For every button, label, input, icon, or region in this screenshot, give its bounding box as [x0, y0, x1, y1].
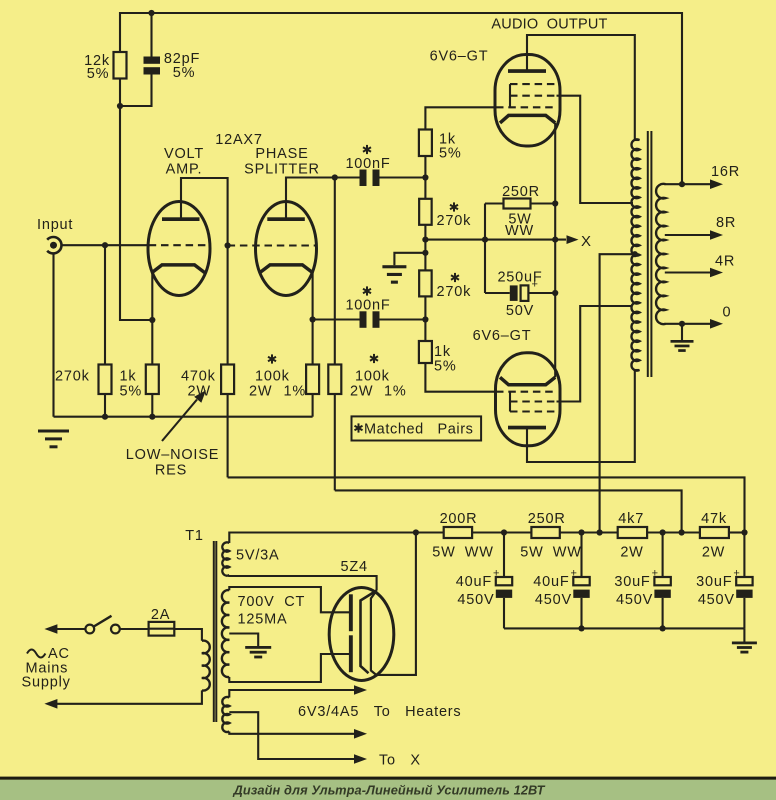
node junction dot center-tap feed: [597, 529, 603, 535]
label LOW-NOISE RES: [126, 447, 219, 479]
label AUDIO OUTPUT: [491, 17, 607, 33]
V1 anode plate bar: [162, 217, 200, 221]
node junction dot 270k/ground rail: [102, 414, 108, 420]
capacitor 30uF 450V first: [654, 533, 670, 629]
svg-text:2W: 2W: [249, 384, 272, 400]
arrow 4R: [710, 268, 723, 278]
ground symbol speaker common: [671, 340, 694, 352]
svg-text:100nF: 100nF: [345, 156, 390, 172]
svg-text:470k: 470k: [181, 369, 216, 385]
svg-text:Pairs: Pairs: [438, 422, 474, 438]
label 4R: [715, 254, 735, 270]
wire input to V1 grid: [62, 244, 149, 246]
wire heater tap to X: [229, 712, 355, 759]
wire splitter return rail (100k bottom): [335, 490, 682, 532]
resistor 250R 5W WW cathode: [485, 199, 555, 209]
svg-text:5V/3A: 5V/3A: [236, 548, 280, 564]
ground symbol main: [38, 430, 69, 449]
label 250R 5W WW dropper: [520, 511, 581, 561]
svg-text:40uF: 40uF: [533, 574, 569, 590]
node junction dot V2 cathode: [310, 316, 316, 322]
node junction dot cathode rail 250R: [552, 200, 558, 206]
wire V2 cathode lead: [312, 271, 314, 320]
tube rectifier 5Z4 envelope: [329, 588, 394, 681]
svg-text:47k: 47k: [701, 511, 727, 527]
wire HT center tap: [229, 634, 258, 647]
V3 anode plate bar: [508, 69, 546, 73]
label VOLT AMP.: [164, 146, 204, 178]
wire 250R/250uF left leg: [484, 204, 486, 294]
resistor 100k 2W 1% (second): [328, 178, 341, 491]
wire bias node to ground tap: [424, 240, 426, 270]
resistor 1k 5% V1 cathode: [146, 320, 159, 417]
label 6V6-GT lower: [473, 328, 532, 344]
label 82pF: [164, 51, 200, 81]
transformer T1 5V/3A winding: [222, 542, 229, 575]
svg-text:700V CT: 700V CT: [238, 594, 306, 610]
wire 5V bottom to 5Z4 filament: [229, 575, 376, 591]
wire filter ground stem: [743, 628, 745, 641]
wire common cathode rail: [554, 123, 556, 377]
transformer T2 secondary winding: [656, 184, 665, 324]
capacitor 30uF 450V second: [736, 533, 752, 629]
wire 0 tap ground lead: [681, 324, 683, 340]
wire ground rail left: [54, 416, 313, 418]
label 470k 2W: [181, 369, 216, 400]
wire heater line 2: [229, 732, 355, 734]
wire 4R tap: [665, 271, 711, 273]
capacitor 100nF lower: [313, 311, 426, 328]
svg-text:RES: RES: [155, 463, 187, 479]
fuse 2A: [149, 622, 175, 636]
node junction dot primary center tap: [632, 251, 638, 257]
label 250uF 50V: [497, 270, 542, 320]
wire V4 screen grid to UL tap: [557, 306, 632, 402]
wire filter ground rail: [504, 627, 744, 629]
V4 anode plate bar: [508, 426, 546, 430]
node junction dot B+ rail end: [741, 529, 747, 535]
label 12AX7: [215, 132, 263, 148]
svg-text:100k: 100k: [255, 369, 290, 385]
resistor 1k 5% grid stopper upper 6V6: [419, 107, 496, 177]
label 250R 5W WW: [502, 184, 540, 239]
node junction dot splitter rail feed: [679, 529, 685, 535]
svg-text:6V3/4A5 To Heaters: 6V3/4A5 To Heaters: [298, 704, 462, 720]
label Matched Pairs: [355, 422, 474, 438]
arrow 16R: [710, 179, 723, 189]
node junction dot X node left: [482, 237, 488, 243]
label 40uF 450V second: [533, 568, 577, 609]
label 6V3/4A5 To Heaters: [298, 704, 462, 720]
label 5V/3A: [236, 548, 280, 564]
label 200R 5W WW: [432, 511, 493, 561]
wire fuse to T1 primary: [174, 629, 202, 641]
svg-text:16R: 16R: [711, 164, 740, 180]
arrow 0: [710, 319, 723, 329]
node junction dot filter gnd 3: [660, 625, 666, 631]
svg-text:125MA: 125MA: [238, 612, 288, 628]
svg-text:Matched: Matched: [364, 422, 424, 438]
tube triode V2 envelope: [256, 202, 317, 296]
label 16R: [711, 164, 740, 180]
svg-text:2A: 2A: [151, 607, 170, 623]
V3 cathode: [500, 115, 555, 123]
svg-text:LOW–NOISE: LOW–NOISE: [126, 447, 219, 463]
node junction dot grid column upper: [422, 174, 428, 180]
capacitor 100nF upper: [360, 170, 426, 187]
wire top feedback rail from 12k/82pF to 16R tap, y=13: [120, 13, 682, 184]
svg-text:WW: WW: [505, 223, 534, 239]
V4 grid structure dashed: [496, 392, 557, 412]
node junction dot 16R feedback: [679, 181, 685, 187]
V1 grid dashed line: [149, 244, 210, 246]
wire HT bottom to 5Z4 plate 2: [229, 654, 349, 682]
label 100k 2W 1% (first): [249, 354, 306, 399]
annotation box Matched Pairs: [352, 416, 482, 440]
caption background: [0, 780, 776, 800]
svg-text:270k: 270k: [437, 213, 472, 229]
wire V1 anode to V2 grid node: [181, 178, 228, 246]
node junction dot lower coupling node: [422, 316, 428, 322]
wire AC line 1: [57, 628, 85, 630]
label 1k 5% lower: [434, 344, 457, 375]
V2 grid dashed line: [228, 244, 316, 246]
wire V3 screen grid to UL tap: [557, 96, 634, 203]
svg-text:AUDIO OUTPUT: AUDIO OUTPUT: [491, 17, 607, 33]
wire V4 anode to output transformer primary bottom: [527, 370, 635, 462]
svg-text:450V: 450V: [616, 592, 653, 608]
resistor 4k7 2W: [618, 527, 700, 538]
svg-text:AMP.: AMP.: [166, 162, 203, 178]
wire feedback down to V1 cathode: [120, 106, 152, 320]
node junction dot 40uF second: [578, 529, 584, 535]
V4 cathode: [500, 377, 555, 385]
svg-text:6V6–GT: 6V6–GT: [430, 49, 489, 65]
V2 cathode: [260, 265, 313, 273]
label 270k upper: [437, 202, 472, 229]
node junction dot 82pF top: [148, 10, 154, 16]
wire 16R tap: [665, 183, 711, 185]
svg-text:Supply: Supply: [22, 675, 71, 691]
resistor 470k 2W plate load: [221, 246, 234, 478]
svg-text:5W: 5W: [520, 545, 543, 561]
resistor 270k lower: [419, 270, 432, 319]
capacitor 40uF 450V second: [573, 533, 589, 629]
arrow heater 2: [354, 729, 367, 739]
svg-text:PHASE: PHASE: [255, 146, 308, 162]
svg-text:1k: 1k: [120, 369, 137, 385]
svg-text:100nF: 100nF: [345, 298, 390, 314]
svg-text:Дизайн для Ультра-Линейный Уси: Дизайн для Ультра-Линейный Усилитель 12В…: [233, 783, 546, 798]
label 270k lower: [437, 273, 472, 300]
svg-text:450V: 450V: [698, 592, 735, 608]
tube pentode V3 envelope upper 6V6: [495, 55, 560, 147]
transformer T1 HT winding 700V: [222, 590, 229, 677]
wire B+ rail segment 1: [229, 533, 443, 544]
svg-text:5%: 5%: [434, 359, 457, 375]
node junction dot 100nF upper / 100k: [332, 174, 338, 180]
wire ground tap: [394, 253, 425, 265]
capacitor 82pF 5%: [120, 13, 160, 106]
svg-text:+: +: [571, 568, 578, 580]
label 4k7 2W: [618, 511, 644, 561]
wire HT top to 5Z4 plate 1: [229, 587, 349, 612]
svg-text:270k: 270k: [55, 369, 90, 385]
wire 8R tap: [665, 234, 711, 236]
label 100nF lower: [345, 286, 390, 313]
svg-text:2W: 2W: [702, 545, 725, 561]
resistor 200R 5W WW: [444, 527, 532, 538]
node junction dot cathode rail X: [552, 237, 558, 243]
label 100k 2W 1% (second): [350, 354, 407, 400]
label 100nF upper: [345, 145, 390, 172]
label 5Z4: [341, 559, 368, 575]
label 700V CT 125MA: [238, 594, 306, 628]
transformer T1 heater winding 6V3: [222, 697, 229, 732]
svg-text:VOLT: VOLT: [164, 146, 204, 162]
label 1k 5% upper: [439, 132, 462, 162]
svg-text:0: 0: [723, 305, 732, 321]
node junction dot V1 cathode/feedback/1k: [149, 317, 155, 323]
arrow AC line 2: [44, 699, 57, 709]
wire switch to fuse: [120, 628, 149, 630]
svg-text:1%: 1%: [384, 384, 407, 400]
svg-text:100k: 100k: [355, 369, 390, 385]
svg-text:250R: 250R: [528, 511, 566, 527]
resistor 12k 5%: [114, 52, 127, 106]
svg-text:450V: 450V: [535, 592, 572, 608]
svg-text:To X: To X: [379, 753, 421, 769]
resistor 270k upper: [419, 178, 432, 240]
svg-text:+: +: [652, 568, 659, 580]
label X: [581, 233, 592, 250]
svg-text:450V: 450V: [457, 592, 494, 608]
label T1: [185, 528, 204, 544]
ground symbol PSU filters: [732, 642, 757, 654]
arrow X marker: [567, 235, 579, 244]
svg-text:+: +: [493, 568, 500, 580]
svg-text:WW: WW: [553, 545, 582, 561]
svg-text:5%: 5%: [87, 66, 110, 82]
svg-text:6V6–GT: 6V6–GT: [473, 328, 532, 344]
svg-text:+: +: [733, 568, 740, 580]
wire 5Z4 cathode B+ output: [376, 533, 416, 675]
V1 cathode: [152, 265, 205, 273]
label 30uF 450V second: [696, 568, 740, 609]
svg-text:2W: 2W: [620, 545, 643, 561]
label 12k: [84, 53, 110, 82]
wire back-bias rail (470k bottom): [228, 477, 745, 532]
node junction dot cathode rail 250uF: [552, 290, 558, 296]
svg-text:250R: 250R: [502, 184, 540, 200]
svg-text:270k: 270k: [437, 284, 472, 300]
label 0: [723, 305, 732, 321]
resistor 100k 2W 1% (first): [306, 320, 319, 417]
label 8R: [716, 215, 736, 231]
node junction dot V2 grid: [225, 242, 231, 248]
node junction dot feedback bottom: [117, 103, 123, 109]
node junction dot bias node: [422, 237, 428, 243]
wire input jack ground lead: [52, 253, 54, 417]
label To X: [379, 753, 421, 769]
wire bias node to X: [425, 239, 566, 241]
label 47k 2W: [701, 511, 727, 561]
arrow To X: [354, 754, 367, 764]
transformer T2 core: [648, 131, 652, 377]
arrow AC line 1: [44, 624, 57, 634]
svg-text:Input: Input: [37, 217, 73, 233]
arrow low-noise pointer: [162, 390, 206, 441]
transformer T1 primary winding: [202, 641, 210, 691]
label PHASE SPLITTER: [244, 146, 320, 178]
label Input: [37, 217, 73, 233]
node junction dot input/270k: [102, 242, 108, 248]
transformer T1 core: [214, 541, 217, 722]
label 30uF 450V first: [614, 568, 658, 609]
svg-text:5W: 5W: [432, 545, 455, 561]
ground symbol phase splitter bias: [382, 265, 406, 284]
arrow 8R: [710, 230, 723, 240]
svg-text:5%: 5%: [439, 146, 462, 162]
svg-text:5Z4: 5Z4: [341, 559, 368, 575]
svg-text:5%: 5%: [120, 384, 143, 400]
V3 grid structure dashed: [496, 84, 557, 107]
svg-text:WW: WW: [465, 545, 494, 561]
label 6V6-GT upper: [430, 49, 489, 65]
5Z4 cathode ribbon: [361, 591, 377, 675]
wire AC line 2: [57, 690, 202, 703]
svg-text:8R: 8R: [716, 215, 736, 231]
node junction dot 0 tap ground: [679, 321, 685, 327]
5Z4 plate bar: [349, 594, 353, 672]
svg-text:1%: 1%: [284, 384, 307, 400]
wire V2 anode to coupling cap: [286, 178, 360, 220]
node junction dot 30uF first: [660, 529, 666, 535]
wire heater line 1: [229, 690, 355, 698]
svg-text:2W: 2W: [350, 384, 373, 400]
label 270k: [55, 369, 90, 385]
svg-text:4k7: 4k7: [618, 511, 644, 527]
resistor 1k 5% grid stopper lower 6V6: [419, 320, 496, 392]
input jack J1: [47, 237, 61, 253]
svg-text:+: +: [532, 279, 539, 291]
svg-text:40uF: 40uF: [456, 574, 492, 590]
wire V3 anode to output transformer primary top: [527, 35, 635, 140]
svg-text:30uF: 30uF: [696, 574, 732, 590]
caption divider: [0, 777, 776, 780]
resistor 250R 5W WW dropper: [531, 527, 617, 538]
svg-text:T1: T1: [185, 528, 204, 544]
svg-text:4R: 4R: [715, 254, 735, 270]
caption text: [233, 783, 546, 798]
capacitor 250uF 50V: [485, 285, 555, 301]
resistor 47k 2W: [700, 527, 745, 538]
node junction dot filter gnd 2: [578, 625, 584, 631]
resistor 270k grid leak: [99, 245, 112, 417]
svg-text:X: X: [581, 233, 592, 250]
transformer T2 primary winding: [631, 139, 639, 370]
svg-text:50V: 50V: [506, 303, 534, 319]
node junction dot ground tap: [422, 250, 428, 256]
label 40uF 450V first: [456, 568, 500, 609]
switch SW1: [85, 616, 119, 634]
ground symbol HT center tap: [245, 646, 271, 658]
node junction dot 1k/ground rail: [149, 414, 155, 420]
svg-text:5%: 5%: [173, 65, 196, 81]
wire 0 tap: [665, 323, 711, 325]
arrow heater 1: [354, 685, 367, 695]
V2 anode plate bar: [267, 217, 305, 221]
label AC Mains Supply: [22, 646, 71, 691]
svg-text:SPLITTER: SPLITTER: [244, 162, 320, 178]
tube pentode V4 envelope lower 6V6: [496, 353, 561, 446]
capacitor 40uF 450V first: [496, 533, 512, 629]
label 1k 5%: [120, 369, 143, 400]
tube triode V1 envelope: [148, 202, 210, 296]
node junction dot 40uF first: [501, 529, 507, 535]
label 2A: [151, 607, 170, 623]
svg-text:30uF: 30uF: [614, 574, 650, 590]
svg-text:200R: 200R: [440, 511, 478, 527]
wire center tap to B+ rail: [600, 254, 635, 532]
node junction dot rectifier takeoff: [413, 529, 419, 535]
wire V1 cathode lead: [151, 271, 153, 320]
